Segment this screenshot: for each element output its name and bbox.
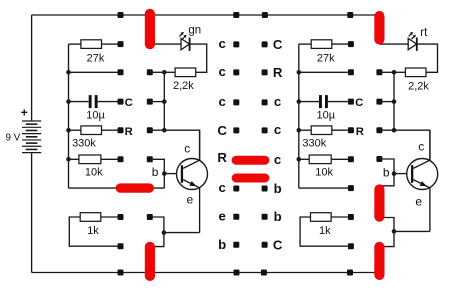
resistor R4 1k (69, 213, 117, 247)
wire base Q1 (164, 173, 177, 175)
pin bottom rail col1 (118, 270, 124, 276)
junction right bus row5 (297, 157, 302, 162)
node col6 row3 (376, 99, 382, 105)
wire right bus (298, 44, 300, 188)
wire row6 right (299, 187, 348, 189)
jumper red right col6 bottom (374, 242, 384, 280)
battery BT1 9V (6, 15, 42, 273)
transistor Q2 NPN (407, 159, 438, 190)
svg-text:27k: 27k (87, 52, 105, 64)
resistor R9 1k (300, 213, 348, 247)
node col6 row4 (376, 127, 382, 133)
svg-text:c: c (418, 140, 424, 154)
svg-text:c: c (219, 36, 226, 51)
svg-text:c: c (274, 152, 281, 167)
svg-text:c: c (219, 64, 226, 79)
wire right vline rows2-4 (393, 72, 395, 130)
junction right vline row4 (392, 128, 397, 133)
node col5 row4 (348, 127, 354, 133)
node col1 row7 (118, 214, 124, 220)
svg-text:1k: 1k (87, 225, 99, 237)
node col2 row7 (147, 214, 153, 220)
svg-text:e: e (415, 195, 422, 209)
wire base net col6-row5 to base (379, 159, 394, 174)
junction right divider row2 (392, 70, 397, 75)
junction right vline row3 (392, 99, 397, 104)
node col6 row2 (376, 69, 382, 75)
resistor R3 10k (69, 155, 118, 179)
svg-text:rt: rt (420, 27, 428, 39)
node col1 row3 (118, 99, 124, 105)
svg-text:b: b (274, 209, 282, 224)
svg-text:b: b (274, 181, 282, 196)
resistor R7 330k (299, 126, 348, 150)
node col4 y244 (262, 242, 268, 248)
svg-text:C: C (125, 97, 133, 109)
wire base Q2 (394, 173, 408, 175)
pin bottom rail col4 (261, 270, 267, 276)
LED D2 red (379, 32, 417, 51)
wire col2-row3 to vline (150, 101, 165, 103)
node col5 row8 (348, 243, 354, 249)
jumper red left col2 bottom (emitter to -rail) (145, 242, 155, 281)
jumper red top col2 (+rail to LED D1) (145, 9, 155, 50)
resistor R6 27k (299, 40, 348, 65)
wire emitter net down to jumper (150, 233, 164, 247)
wire emitter net right (394, 230, 430, 232)
pin top rail col3 (233, 12, 239, 18)
pin top rail col4 (262, 12, 268, 18)
node col1 row5 (118, 156, 124, 162)
svg-text:b: b (218, 237, 226, 252)
pin bottom rail col3 (234, 270, 240, 276)
node col2 row2 (147, 69, 153, 75)
jumper red top col6 (+rail to LED D2) (374, 11, 384, 45)
junction left vline row3 (162, 99, 167, 104)
svg-text:C: C (217, 123, 227, 138)
pin bottom rail col5 (347, 270, 353, 276)
capacitor C2 10u (299, 95, 348, 121)
pin top rail col1 (118, 12, 124, 18)
node col4 y44 (262, 41, 268, 47)
wire left vline rows2-4 (163, 72, 165, 130)
wire - rail (bottom) (32, 272, 380, 274)
junction emitter net (162, 230, 167, 235)
svg-text:1k: 1k (319, 225, 331, 237)
node col3 y244 (233, 242, 239, 248)
svg-text:e: e (186, 192, 193, 206)
svg-text:10k: 10k (85, 167, 103, 179)
wire base jumper stub Q2 (379, 174, 394, 186)
wire emitter Q2 (429, 188, 431, 232)
wire collector Q1 (199, 130, 201, 160)
svg-text:330k: 330k (302, 138, 326, 150)
node col3 y216 (233, 214, 239, 220)
node col3 y130 (233, 127, 239, 133)
svg-text:10µ: 10µ (317, 110, 336, 122)
wire left bus (68, 44, 70, 188)
junction left bus row5 (66, 157, 71, 162)
node col5 row1 (348, 41, 354, 47)
svg-text:C: C (355, 97, 363, 109)
junction left bus row2 (66, 70, 71, 75)
node col4 y102 (262, 99, 268, 105)
transistor Q1 NPN (177, 159, 208, 190)
junction base-divider row2 (162, 70, 167, 75)
resistor R8 10k (299, 155, 348, 179)
node col1 row1 (118, 41, 124, 47)
capacitor C1 10u (69, 95, 118, 121)
resistor R1 27k (69, 40, 118, 65)
wire LED D1 cathode to R5 (189, 44, 206, 72)
node col1 row8 (118, 243, 124, 249)
node col4 y72 (262, 69, 268, 75)
svg-text:R: R (273, 65, 283, 80)
wire row4 col6 to collector (379, 130, 430, 160)
node col3 y102 (233, 99, 239, 105)
svg-text:10k: 10k (315, 167, 333, 179)
node col4 y130 (262, 127, 268, 133)
junction emitter net right (392, 229, 397, 234)
node col3 y188 (233, 186, 239, 192)
wire emitter net to jumper B (379, 231, 394, 246)
svg-text:+: + (21, 105, 28, 119)
svg-text:330k: 330k (72, 138, 96, 150)
svg-text:2,2k: 2,2k (173, 80, 194, 92)
junction left bus row4 (66, 128, 71, 133)
node col5 row5 (348, 156, 354, 162)
resistor R2 330k (69, 126, 118, 150)
node col5 row2 (348, 69, 354, 75)
svg-text:R: R (356, 126, 364, 138)
node col2 row5 (147, 156, 153, 162)
wire emitter Q2 to jumper A (379, 218, 394, 232)
node col5 row6 (348, 185, 354, 191)
jumper red left row6 (116, 183, 154, 192)
wire emitter net to col2 row7 (150, 217, 164, 233)
wire row2 left (69, 71, 118, 73)
wire + rail (top) (32, 14, 380, 16)
junction right bus row2 (297, 70, 302, 75)
wire base net col2-row5 to base (150, 159, 165, 188)
wire row4 col2 to collector (150, 130, 200, 160)
node col3 y72 (233, 69, 239, 75)
svg-text:9 V: 9 V (6, 133, 21, 144)
LED D1 green (150, 32, 191, 51)
jumper red right col6 rows6-7 (374, 184, 384, 221)
wire row2 right (299, 71, 348, 73)
node col3 y44 (233, 41, 239, 47)
junction right bus row3 (297, 99, 302, 104)
junction left bus row3 (66, 99, 71, 104)
junction base Q2 (392, 171, 397, 176)
node col5 row7 (348, 214, 354, 220)
wire LED D2 cathode to R10 (417, 44, 438, 72)
svg-text:e: e (219, 209, 226, 224)
svg-text:C: C (273, 37, 283, 52)
svg-text:c: c (184, 141, 190, 155)
wire col2-row2 to junction (150, 71, 165, 73)
pin top rail col5 (347, 12, 353, 18)
node col1 row4 (118, 127, 124, 133)
svg-text:gn: gn (188, 24, 201, 36)
node col4 y188 (262, 186, 268, 192)
svg-text:R: R (217, 150, 227, 165)
svg-text:b: b (383, 166, 390, 180)
svg-text:27k: 27k (317, 52, 335, 64)
wire emitter to ground jumper (164, 232, 200, 234)
svg-text:c: c (274, 122, 281, 137)
junction base Q1 (162, 171, 167, 176)
node col1 row2 (118, 69, 124, 75)
junction left vline row4 (162, 128, 167, 133)
node col4 y216 (262, 214, 268, 220)
node col2 row4 (147, 127, 153, 133)
wire row6 left (bus to base net) (69, 187, 165, 189)
node col2 row3 (147, 99, 153, 105)
wire emitter Q1 (199, 188, 201, 233)
wire collector Q2 (429, 130, 431, 160)
junction right bus row4 (297, 128, 302, 133)
node col6 row5 (376, 156, 382, 162)
wire col6-row3 to vline (379, 101, 394, 103)
svg-text:2,2k: 2,2k (408, 81, 429, 93)
svg-text:c: c (219, 180, 226, 195)
resistor R10 2,2k (394, 68, 429, 93)
svg-text:10µ: 10µ (86, 110, 105, 122)
svg-text:c: c (219, 94, 226, 109)
svg-text:c: c (274, 94, 281, 109)
wire col6-row2 to junction (379, 71, 394, 73)
svg-text:C: C (273, 237, 283, 252)
svg-text:R: R (125, 126, 133, 138)
jumper red center row5 (232, 156, 270, 165)
resistor R5 2,2k (164, 68, 195, 92)
svg-text:b: b (152, 165, 159, 179)
node col5 row3 (348, 99, 354, 105)
jumper red center row5b (232, 174, 270, 183)
